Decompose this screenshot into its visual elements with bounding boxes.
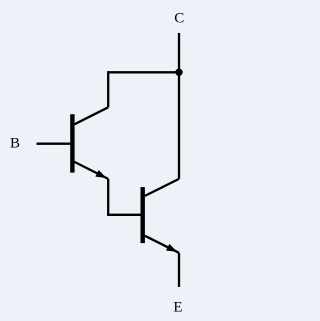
Q1 emitter arrowhead bbox=[95, 170, 106, 178]
wire: collector lead from C down to junction bbox=[178, 33, 180, 72]
wire: base lead from B to Q1 bbox=[37, 143, 71, 145]
wire: collector bus from junction down to Q2 collector corner bbox=[178, 72, 180, 179]
svg-text:C: C bbox=[174, 11, 184, 27]
Q1 base bar bbox=[70, 114, 74, 172]
wire: emitter lead from Q2 down to E bbox=[178, 253, 180, 287]
Q2 collector diagonal bbox=[145, 179, 179, 196]
transistor Q1 bbox=[72, 107, 108, 179]
Q2 emitter diagonal bbox=[145, 236, 179, 253]
Q2 emitter arrowhead bbox=[166, 244, 177, 252]
Q1 emitter diagonal bbox=[74, 162, 108, 179]
wire: Q1 collector elbow (junction left then down to Q1) bbox=[108, 72, 179, 107]
svg-text:E: E bbox=[173, 300, 182, 316]
svg-text:B: B bbox=[10, 136, 20, 152]
Q1 collector diagonal bbox=[74, 107, 108, 124]
junction dot bbox=[175, 69, 182, 76]
Q2 base bar bbox=[140, 187, 144, 243]
transistor Q2 bbox=[143, 179, 179, 253]
wire: Q1 emitter down and right to Q2 base bbox=[108, 179, 140, 215]
